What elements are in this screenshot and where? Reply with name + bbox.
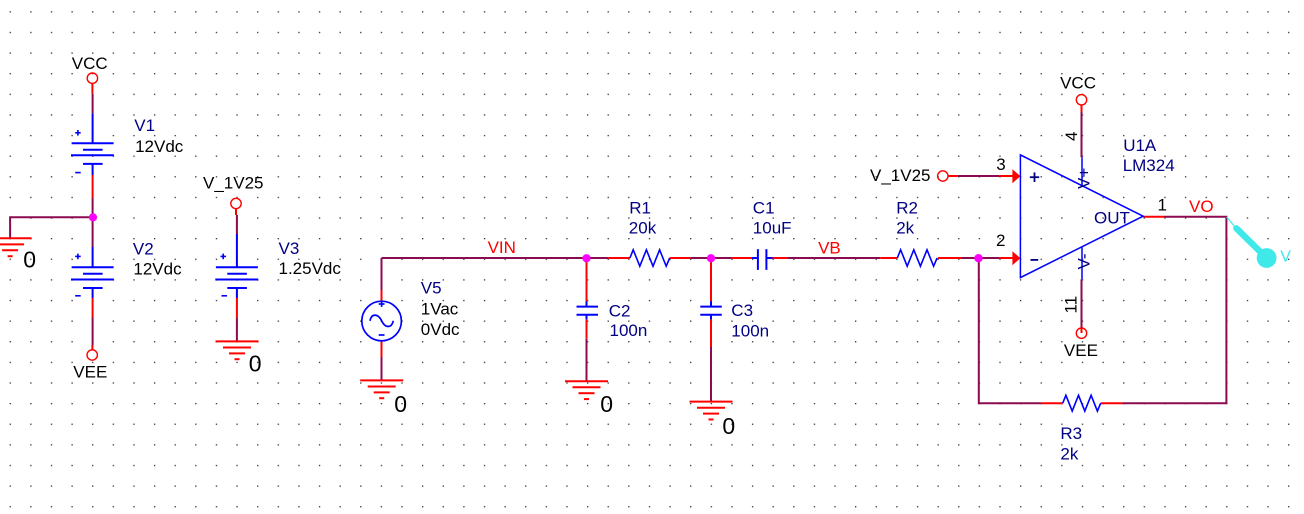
svg-text:LM324: LM324 [1123,156,1175,175]
svg-text:VO: VO [1189,197,1214,216]
svg-text:V+: V+ [1075,168,1094,189]
svg-text:2k: 2k [1060,445,1078,464]
svg-text:20k: 20k [629,219,657,238]
svg-text:C3: C3 [731,301,753,320]
svg-text:0: 0 [249,351,262,377]
svg-text:R2: R2 [896,199,918,218]
svg-text:VEE: VEE [73,362,107,381]
svg-text:V_1V25: V_1V25 [203,174,264,193]
svg-text:12Vdc: 12Vdc [133,259,182,278]
svg-text:V1: V1 [134,116,155,135]
svg-text:1: 1 [1158,195,1167,214]
svg-text:V3: V3 [279,239,300,258]
svg-text:100n: 100n [610,321,648,340]
svg-text:R1: R1 [629,198,651,217]
svg-text:0: 0 [23,247,36,273]
svg-text:V: V [1280,249,1291,266]
svg-text:V5: V5 [421,279,442,298]
svg-text:VIN: VIN [488,238,516,257]
svg-text:100n: 100n [731,321,769,340]
svg-text:OUT: OUT [1094,209,1130,228]
svg-text:C2: C2 [609,301,631,320]
svg-text:V_1V25: V_1V25 [870,166,931,185]
svg-text:0: 0 [394,391,407,417]
svg-text:0Vdc: 0Vdc [421,320,460,339]
svg-text:2k: 2k [896,218,914,237]
svg-text:2: 2 [996,231,1005,250]
svg-text:11: 11 [1062,296,1081,314]
svg-text:10uF: 10uF [753,218,792,237]
svg-text:C1: C1 [753,199,775,218]
svg-text:VCC: VCC [1060,74,1096,93]
svg-text:1Vac: 1Vac [421,299,459,318]
svg-text:4: 4 [1062,132,1081,141]
svg-text:V-: V- [1075,253,1094,269]
svg-text:V2: V2 [133,239,154,258]
svg-text:U1A: U1A [1123,136,1157,155]
svg-text:VCC: VCC [72,54,108,73]
svg-text:12Vdc: 12Vdc [135,137,184,156]
svg-text:VB: VB [818,238,841,257]
svg-text:R3: R3 [1060,424,1082,443]
svg-text:0: 0 [722,413,735,439]
svg-text:3: 3 [996,155,1005,174]
svg-text:1.25Vdc: 1.25Vdc [279,259,342,278]
svg-text:0: 0 [600,391,613,417]
svg-text:VEE: VEE [1064,341,1098,360]
